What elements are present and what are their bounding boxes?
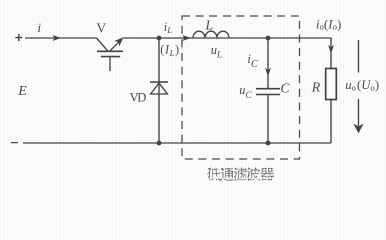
svg-text:VD: VD (130, 90, 147, 104)
svg-text:R: R (311, 80, 321, 95)
svg-text:i: i (37, 20, 41, 35)
svg-text:V: V (96, 21, 106, 36)
svg-text:E: E (17, 84, 27, 99)
svg-text:io(Io): io(Io) (316, 16, 341, 31)
svg-text:uL: uL (211, 43, 222, 60)
svg-text:iC: iC (247, 52, 258, 70)
svg-text:iL: iL (164, 20, 172, 35)
svg-text:L: L (205, 18, 214, 33)
svg-text:C: C (280, 80, 290, 95)
svg-text:uo (Uo): uo (Uo) (345, 78, 379, 93)
svg-text:(IL): (IL) (160, 43, 179, 58)
svg-text:uC: uC (239, 83, 252, 101)
